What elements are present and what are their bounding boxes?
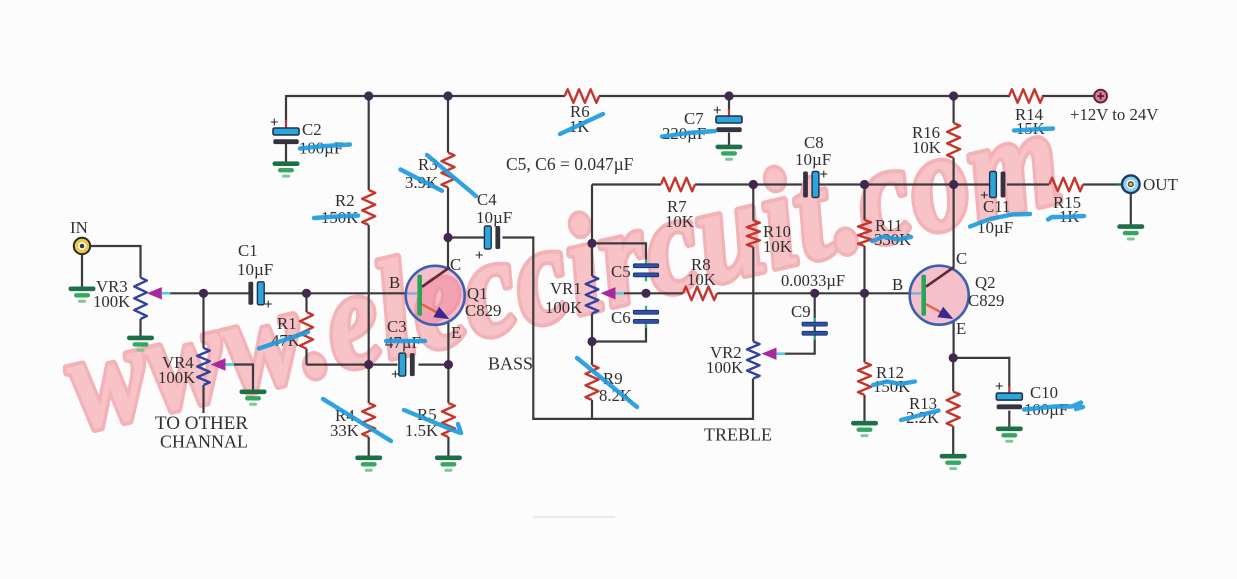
svg-text:10K: 10K bbox=[763, 237, 792, 256]
wire VR4 bottom bbox=[202, 385, 204, 413]
wire R13 stub bbox=[952, 358, 954, 392]
svg-text:C11: C11 bbox=[983, 197, 1010, 216]
wire C9 stub bbox=[814, 293, 816, 322]
wire C10 branch bbox=[953, 358, 1009, 387]
node C5C6 wiper bbox=[641, 289, 650, 298]
scribble R3 a bbox=[427, 155, 476, 196]
connector OUT bbox=[1122, 175, 1140, 193]
connector +12V bbox=[1094, 90, 1107, 103]
node rail2 R10 bbox=[749, 180, 758, 189]
wire R1 node to Q1 base bbox=[307, 292, 408, 294]
node tone bottom bbox=[587, 337, 596, 346]
capacitor C3 bbox=[399, 353, 406, 376]
scribble R15 value bbox=[1048, 216, 1084, 220]
svg-text:CHANNAL: CHANNAL bbox=[160, 432, 248, 452]
faint artifact line bbox=[533, 516, 615, 518]
wire E row left bbox=[307, 364, 398, 366]
wire C2 stub bbox=[285, 95, 287, 122]
resistor R16 bbox=[947, 123, 960, 158]
wire R12 stub bbox=[863, 293, 865, 362]
wire R13 ground stem bbox=[952, 426, 954, 454]
capacitor C11 bbox=[990, 172, 997, 198]
svg-text:10K: 10K bbox=[687, 270, 716, 289]
scribble C3 value bbox=[386, 339, 425, 343]
wire C5C6 node to R8 bbox=[646, 292, 683, 294]
svg-text:+: + bbox=[270, 115, 279, 131]
ground OUT bbox=[1117, 224, 1144, 229]
svg-text:+: + bbox=[264, 297, 273, 313]
resistor R11 bbox=[858, 220, 871, 246]
wire C7 stub bbox=[728, 95, 730, 110]
svg-text:33K: 33K bbox=[330, 421, 359, 440]
scribble R12 value bbox=[873, 382, 915, 386]
svg-text:BASS: BASS bbox=[488, 354, 533, 374]
node E row Q1 bbox=[444, 360, 453, 369]
svg-text:Q2: Q2 bbox=[975, 273, 996, 292]
wiper arrow VR3 bbox=[147, 287, 162, 299]
svg-text:B: B bbox=[892, 275, 903, 294]
svg-text:+: + bbox=[820, 167, 829, 183]
svg-text:100K: 100K bbox=[706, 358, 743, 377]
ground R13 bbox=[940, 454, 967, 459]
wire top rail mid bbox=[599, 95, 1010, 97]
resistor R7 bbox=[661, 178, 695, 192]
potentiometer VR2 bbox=[747, 342, 760, 379]
potentiometer VR3 bbox=[134, 278, 147, 319]
wire VR4 column bbox=[202, 293, 204, 348]
ground VR3 bbox=[127, 336, 154, 341]
svg-text:OUT: OUT bbox=[1143, 175, 1179, 194]
wire Q2 collector bbox=[952, 185, 954, 269]
scribble C11 value bbox=[970, 214, 1030, 227]
svg-text:C829: C829 bbox=[465, 301, 501, 320]
svg-text:100K: 100K bbox=[545, 298, 582, 317]
potentiometer VR1 bbox=[586, 276, 599, 314]
node base VR3 bbox=[199, 289, 208, 298]
ground R5 bbox=[435, 456, 462, 461]
resistor R8 bbox=[683, 287, 717, 301]
wire rail2 seg1 bbox=[592, 183, 661, 185]
wire C9 to VR2 wiper bbox=[781, 324, 815, 354]
node E row R4 bbox=[364, 360, 373, 369]
svg-text:10µF: 10µF bbox=[795, 150, 831, 169]
wire R4 stub bbox=[368, 365, 370, 403]
svg-text:10K: 10K bbox=[665, 212, 694, 231]
ground C10 bbox=[996, 427, 1023, 432]
ground C7 bbox=[716, 145, 743, 150]
capacitor C7 bbox=[716, 116, 742, 123]
ground R12 bbox=[851, 421, 878, 426]
resistor R3 bbox=[442, 153, 455, 188]
wire top rail right bbox=[1042, 95, 1095, 97]
svg-text:VR1: VR1 bbox=[550, 279, 582, 298]
wire R12 ground stem bbox=[863, 395, 865, 422]
wire C4 right + bass down bbox=[503, 238, 754, 419]
node tone top bbox=[587, 239, 596, 248]
wire C1 to R1 node bbox=[262, 292, 307, 294]
wire C3 right to E node bbox=[419, 364, 449, 366]
resistor R6 bbox=[565, 89, 600, 103]
svg-text:+: + bbox=[391, 367, 400, 383]
wire C10 ground stem bbox=[1008, 411, 1010, 427]
wire VR4 wiper to ground bbox=[226, 365, 254, 390]
svg-text:+: + bbox=[475, 248, 484, 264]
transistor Q1 bbox=[406, 266, 465, 325]
wire IN ground stem bbox=[81, 254, 83, 287]
wire IN to VR3 bbox=[90, 246, 141, 278]
wire top rail left bbox=[286, 95, 565, 97]
node C4 junction bbox=[443, 233, 452, 242]
scribble R6 value bbox=[560, 114, 603, 134]
scribble C7 value bbox=[662, 131, 715, 137]
wire R16 stub top bbox=[952, 96, 954, 123]
node top rail R3 bbox=[443, 91, 452, 100]
capacitor C9 bbox=[814, 318, 816, 323]
scribble R14 value bbox=[1014, 129, 1053, 131]
scribble C10 value bbox=[1024, 403, 1083, 410]
node top rail R16 bbox=[949, 91, 958, 100]
wire C5 branch top bbox=[592, 243, 646, 262]
node C9 top bbox=[810, 289, 819, 298]
capacitor C10 bbox=[996, 393, 1022, 400]
svg-text:0.0033µF: 0.0033µF bbox=[781, 271, 845, 290]
wire R9 to bass rail bbox=[591, 400, 593, 420]
scribble R5 value bbox=[404, 410, 461, 433]
wiper arrow VR4 bbox=[211, 358, 226, 370]
wire C7 to ground bbox=[728, 133, 730, 146]
svg-text:E: E bbox=[956, 319, 966, 338]
svg-text:10µF: 10µF bbox=[476, 208, 512, 227]
scribble R1 value bbox=[259, 332, 308, 349]
wire VR1 top stub bbox=[591, 243, 593, 276]
wire Q2 emitter bbox=[952, 322, 954, 358]
wire R1 top stub bbox=[305, 293, 307, 312]
svg-text:C5: C5 bbox=[611, 262, 631, 281]
svg-text:C4: C4 bbox=[477, 190, 497, 209]
wiper arrow VR1 bbox=[601, 287, 616, 299]
svg-text:+: + bbox=[713, 103, 722, 119]
scribble R4 value bbox=[323, 399, 391, 441]
node R11 base bbox=[860, 289, 869, 298]
capacitor C6 bbox=[645, 306, 647, 311]
node base R1 bbox=[302, 289, 311, 298]
wire R11 stub top bbox=[863, 185, 865, 221]
wire Q1 emitter down bbox=[447, 322, 449, 365]
wire R11 to base row bbox=[863, 246, 865, 293]
resistor R10 bbox=[747, 221, 760, 248]
wire rail2 seg4 bbox=[1007, 183, 1049, 185]
scribble R2 value bbox=[314, 216, 358, 219]
svg-text:100K: 100K bbox=[93, 292, 130, 311]
wire C2 to ground bbox=[285, 144, 287, 163]
ground IN bbox=[69, 287, 96, 292]
svg-text:B: B bbox=[389, 273, 400, 292]
svg-text:C: C bbox=[956, 249, 967, 268]
resistor R5 bbox=[442, 403, 455, 437]
wire R3 to Q1 collector bbox=[447, 188, 449, 268]
resistor R15 bbox=[1049, 178, 1083, 192]
connector IN bbox=[74, 238, 90, 254]
wire tone loop left top bbox=[591, 185, 593, 244]
resistor R1 bbox=[300, 312, 313, 349]
svg-text:C5, C6 = 0.047µF: C5, C6 = 0.047µF bbox=[506, 154, 634, 174]
svg-text:IN: IN bbox=[70, 218, 88, 237]
svg-text:C: C bbox=[450, 255, 461, 274]
resistor R12 bbox=[858, 362, 871, 395]
transistor Q2 bbox=[910, 266, 969, 325]
wire R2 column bbox=[368, 96, 370, 190]
svg-text:100K: 100K bbox=[158, 368, 195, 387]
node top rail C7 bbox=[724, 91, 733, 100]
wire R10 column bbox=[752, 185, 754, 221]
svg-text:E: E bbox=[451, 323, 461, 342]
watermark www.eleccircuit.com bbox=[51, 77, 1074, 460]
scribble R3 b bbox=[401, 170, 443, 191]
svg-text:C6: C6 bbox=[611, 308, 631, 327]
scribble R13 value bbox=[901, 411, 939, 421]
wire C6 branch bottom bbox=[592, 325, 646, 342]
ground C2 bbox=[273, 161, 300, 166]
capacitor C1 bbox=[257, 282, 264, 305]
wire VR3 ground stem bbox=[139, 319, 141, 336]
wire R1 bottom corner bbox=[305, 349, 307, 365]
wire R9 stub top bbox=[591, 342, 593, 366]
resistor R4 bbox=[362, 403, 375, 437]
node rail2 R16 bbox=[949, 180, 958, 189]
wire R5 ground stem bbox=[447, 437, 449, 456]
resistor R9 bbox=[586, 365, 599, 400]
svg-text:150K: 150K bbox=[873, 377, 910, 396]
wire R16 to rail2 bbox=[952, 158, 954, 185]
svg-text:C9: C9 bbox=[791, 302, 811, 321]
capacitor C4 bbox=[484, 226, 491, 249]
wire R5 stub bbox=[447, 365, 449, 403]
scribble R9 value bbox=[577, 358, 637, 407]
wire rail2 seg3 bbox=[818, 183, 990, 185]
svg-text:10µF: 10µF bbox=[237, 260, 273, 279]
wire VR1 bottom stub bbox=[591, 314, 593, 342]
resistor R14 bbox=[1009, 89, 1043, 103]
node top rail R2 bbox=[364, 91, 373, 100]
resistor R13 bbox=[947, 392, 960, 427]
wire base row left bbox=[169, 292, 249, 294]
capacitor C2 bbox=[273, 128, 299, 135]
wire VR1 wiper to C5C6 node bbox=[614, 292, 646, 294]
wiper arrow VR2 bbox=[762, 348, 777, 360]
svg-text:C2: C2 bbox=[302, 120, 322, 139]
wire R8 to Q2 base bbox=[717, 292, 912, 294]
svg-text:TREBLE: TREBLE bbox=[704, 425, 772, 445]
ground VR4 bbox=[240, 390, 267, 395]
wire rail2 seg2 bbox=[695, 183, 802, 185]
capacitor C8 bbox=[812, 172, 819, 198]
wire OUT ground stem bbox=[1130, 193, 1132, 225]
scribble C2 value bbox=[300, 145, 350, 149]
node rail2 R11 bbox=[860, 180, 869, 189]
capacitor C5 bbox=[645, 259, 647, 264]
wire R4 ground stem bbox=[368, 437, 370, 456]
scribble R11 value bbox=[872, 237, 911, 242]
wire rail2 to OUT bbox=[1083, 183, 1117, 185]
svg-text:C1: C1 bbox=[238, 241, 258, 260]
node Q2 emitter bbox=[949, 353, 958, 362]
potentiometer VR4 bbox=[197, 348, 210, 385]
wire C4 left bbox=[448, 236, 484, 238]
svg-text:+: + bbox=[995, 379, 1004, 395]
resistor R2 bbox=[362, 190, 375, 225]
svg-text:10K: 10K bbox=[912, 138, 941, 157]
ground R4 bbox=[355, 456, 382, 461]
svg-text:+12V to 24V: +12V to 24V bbox=[1070, 105, 1158, 124]
wire R3 column top bbox=[447, 96, 449, 153]
svg-text:C829: C829 bbox=[968, 291, 1004, 310]
